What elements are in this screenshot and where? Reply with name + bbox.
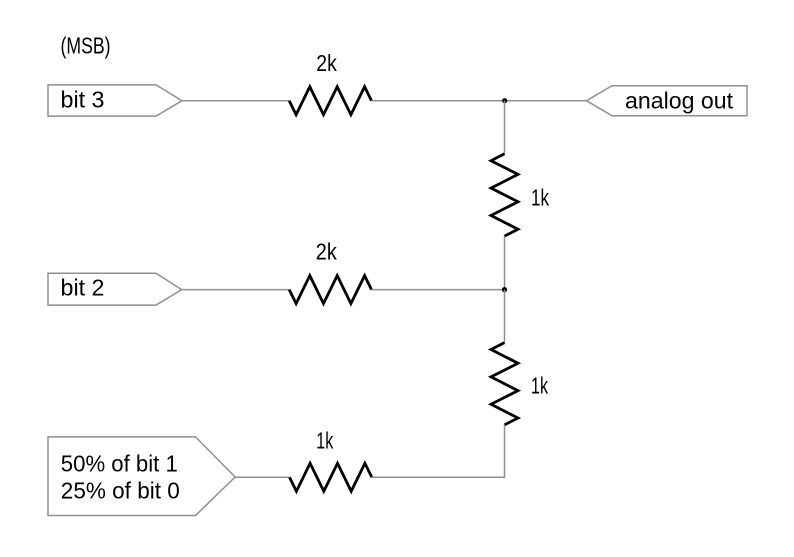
wire R 2k to analog out through node A: [372, 100, 587, 102]
svg-text:2k: 2k: [316, 50, 337, 76]
wire R 1k vertical to node B: [504, 236, 506, 290]
resistor 2k (bit 2): [289, 276, 371, 304]
svg-text:(MSB): (MSB): [61, 32, 111, 58]
wire bit2 to R 2k: [182, 289, 290, 291]
svg-text:25% of bit 0: 25% of bit 0: [61, 477, 180, 503]
output flag analog out: [587, 86, 748, 116]
resistor 1k (bit1/bit0): [290, 463, 372, 491]
wire node A to R 1k vertical: [504, 101, 506, 154]
node A junction dot: [502, 98, 507, 103]
input flag bit 3: [48, 85, 182, 116]
resistor 2k (bit 3): [289, 87, 371, 115]
svg-text:analog out: analog out: [625, 87, 734, 113]
input flag 50% of bit 1 / 25% of bit 0: [48, 437, 235, 516]
wire flag to R 1k: [235, 476, 289, 478]
resistor 1k (vertical lower): [491, 343, 518, 425]
svg-text:2k: 2k: [316, 239, 337, 265]
svg-text:bit 2: bit 2: [61, 275, 105, 301]
wire bit3 to R 2k: [182, 100, 289, 102]
wire R 1k to corner below node B chain: [372, 476, 505, 478]
wire R 2k to node B: [372, 289, 505, 291]
node B junction dot: [502, 287, 507, 292]
svg-text:50% of bit 1: 50% of bit 1: [61, 450, 178, 476]
svg-text:1k: 1k: [316, 428, 333, 454]
svg-text:bit 3: bit 3: [61, 86, 105, 112]
wire R 1k lower to corner: [504, 425, 506, 477]
svg-text:1k: 1k: [531, 185, 549, 211]
input flag bit 2: [48, 273, 182, 305]
wire node B to R 1k vertical lower: [504, 290, 506, 343]
svg-text:1k: 1k: [531, 372, 548, 398]
resistor 1k (vertical upper): [491, 154, 518, 236]
